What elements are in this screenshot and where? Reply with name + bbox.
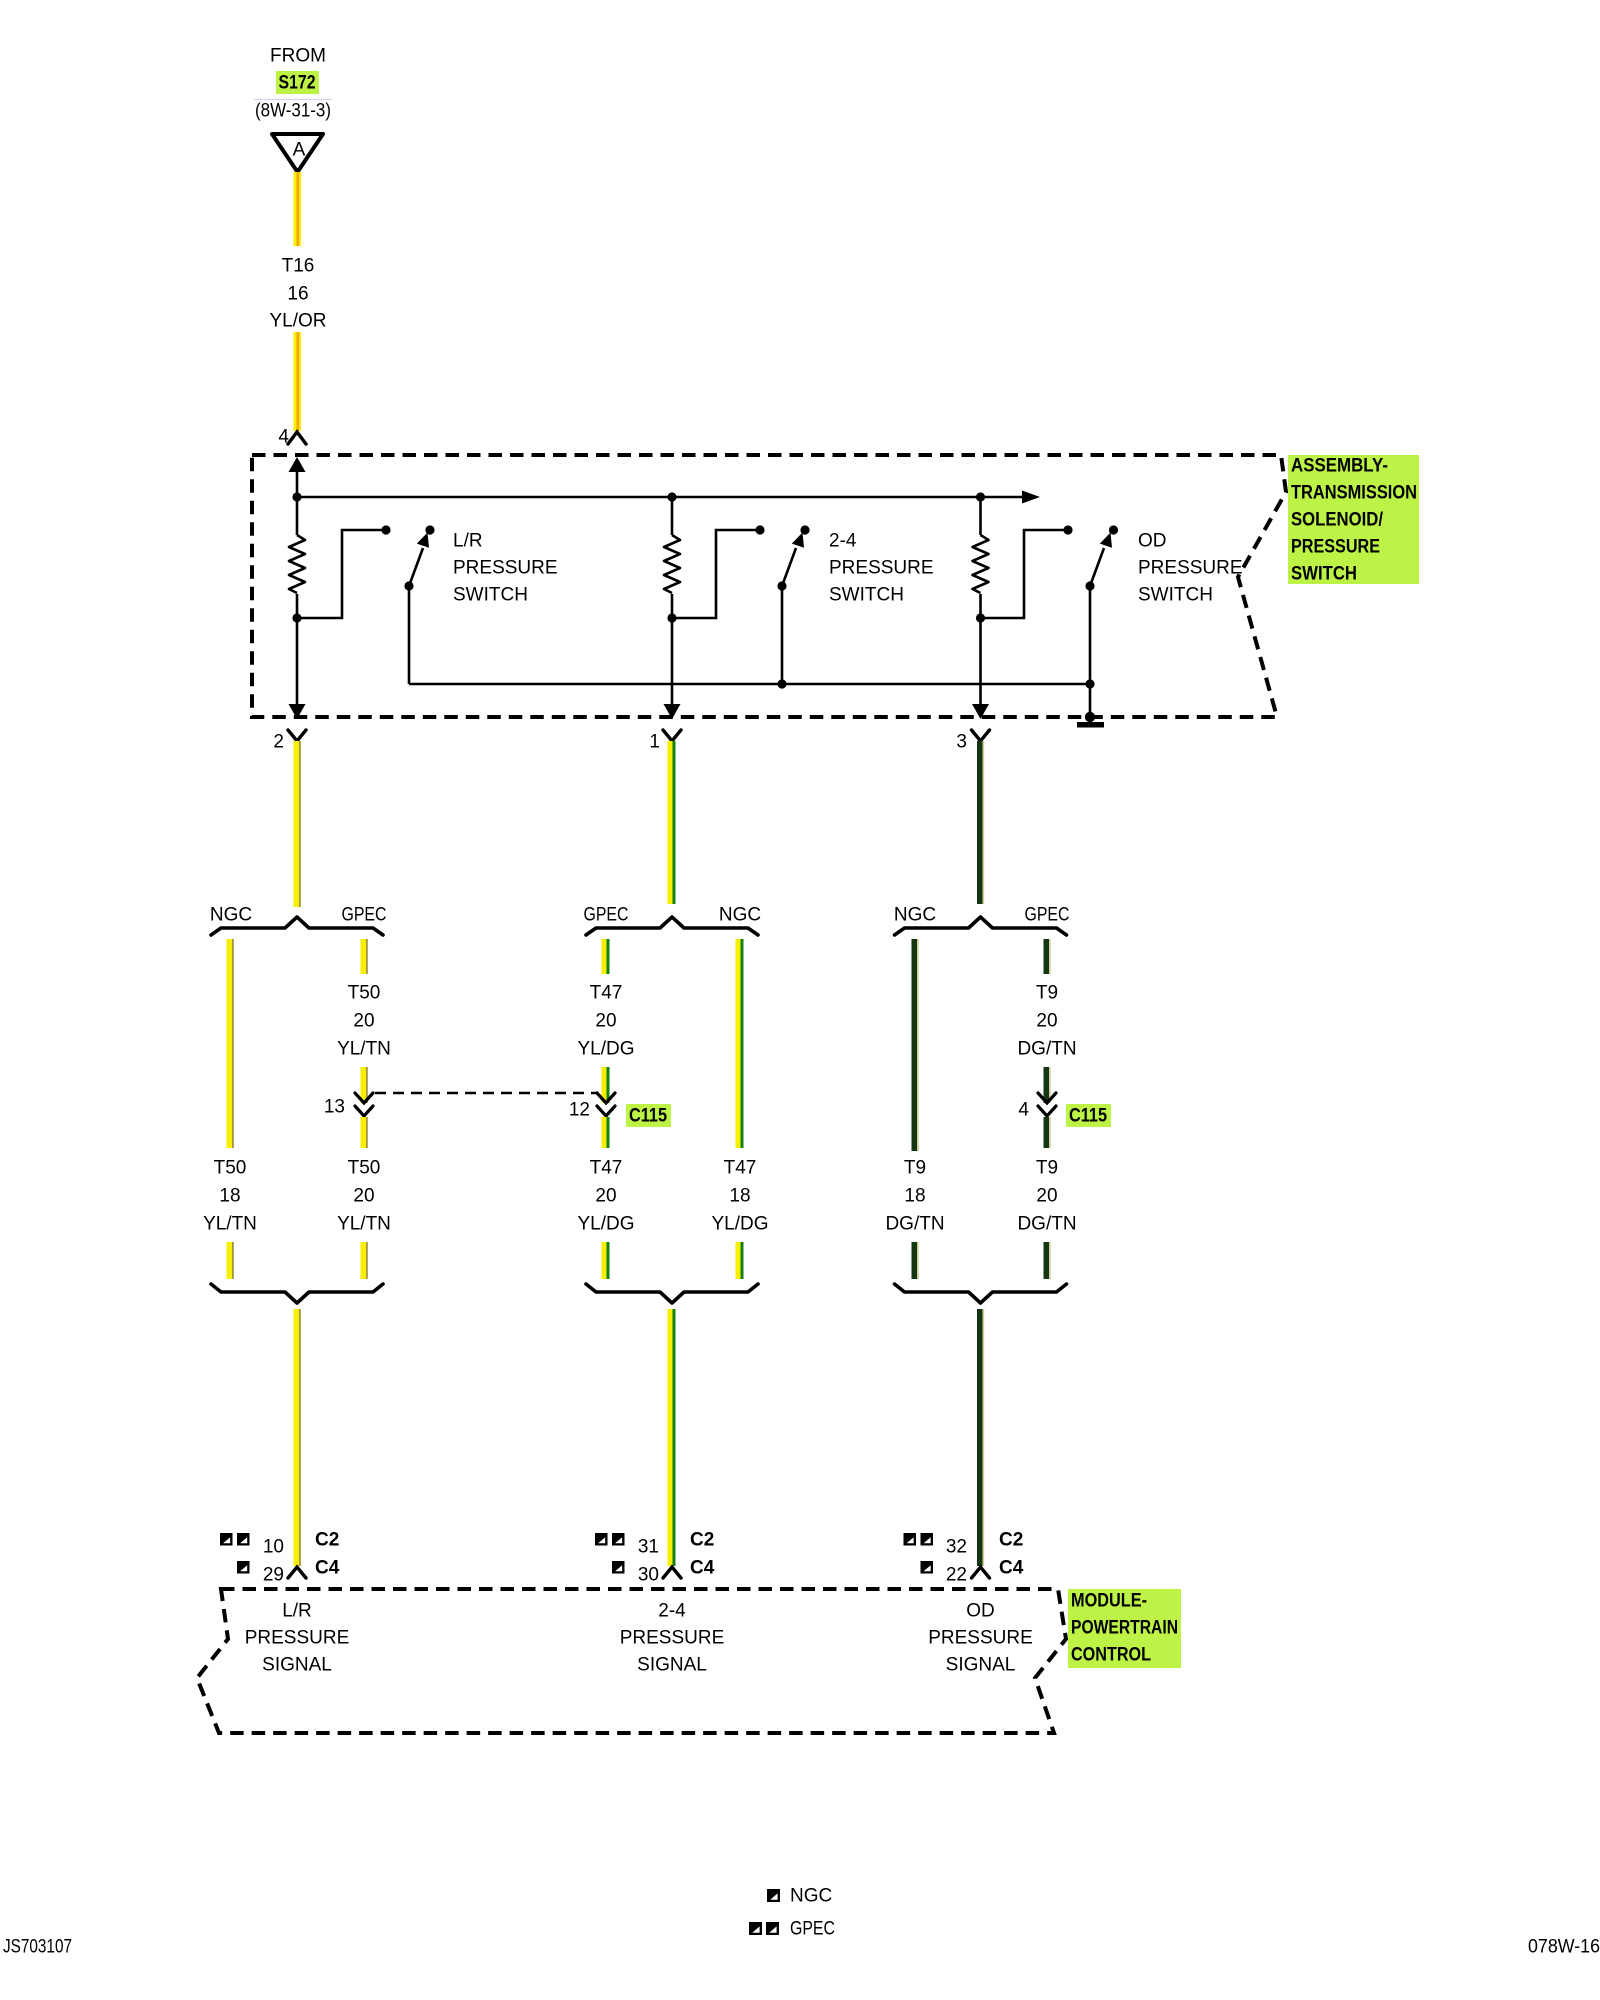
wire col3 merged to PCM (DG/TN) — [977, 1309, 983, 1566]
wire switch common bus (bottom) — [409, 683, 1090, 686]
svg-text:C115: C115 — [1069, 1106, 1107, 1127]
wire col2 vertical — [671, 497, 674, 535]
svg-text:NGC: NGC — [719, 905, 761, 926]
svg-text:3: 3 — [956, 732, 967, 753]
switch OD pressure switch blade — [1109, 525, 1118, 534]
merge brace col3 — [895, 1284, 1067, 1303]
merge brace col2 — [586, 1284, 758, 1303]
svg-text:4: 4 — [1018, 1100, 1029, 1121]
svg-text:20: 20 — [353, 1186, 374, 1207]
wire pin2 to split (YL/TN) — [294, 741, 300, 907]
svg-text:T50: T50 — [348, 1158, 381, 1179]
svg-text:T50: T50 — [214, 1158, 247, 1179]
svg-text:SWITCH: SWITCH — [453, 585, 528, 606]
svg-text:29: 29 — [263, 1565, 284, 1586]
wire col3 NGC branch T9 18 DG/TN — [912, 939, 918, 1151]
pin 29 C4 markers — [237, 1561, 250, 1574]
svg-text:20: 20 — [1036, 1186, 1057, 1207]
svg-text:PRESSURE: PRESSURE — [829, 558, 934, 579]
resistor L/R sense — [289, 535, 305, 593]
svg-text:078W-16: 078W-16 — [1528, 1937, 1600, 1958]
in-line connector C115 pin 13 — [355, 1093, 373, 1103]
svg-text:SIGNAL: SIGNAL — [637, 1655, 707, 1676]
svg-text:YL/DG: YL/DG — [577, 1039, 634, 1060]
pin 1 connector chevron — [663, 730, 681, 741]
wire col3 GPEC lower stub — [1044, 1242, 1050, 1279]
pin chevron col3 into PCM — [972, 1567, 990, 1578]
svg-text:FROM: FROM — [270, 46, 326, 67]
svg-text:GPEC: GPEC — [790, 1919, 835, 1940]
ground (case ground) — [1089, 684, 1092, 717]
pin 30 C4 markers — [612, 1561, 625, 1574]
wire col2 GPEC below C115 — [602, 1117, 607, 1148]
svg-text:GPEC: GPEC — [342, 905, 387, 926]
wire col1 GPEC branch upper stub — [361, 939, 367, 974]
legend NGC icon — [767, 1889, 780, 1902]
internal supply bus wire — [297, 496, 1024, 499]
svg-text:NGC: NGC — [894, 905, 936, 926]
svg-text:YL/OR: YL/OR — [269, 311, 326, 332]
svg-text:12: 12 — [569, 1100, 590, 1121]
svg-text:ASSEMBLY-: ASSEMBLY- — [1291, 456, 1388, 477]
svg-text:SWITCH: SWITCH — [1138, 585, 1213, 606]
exit arrow down pin 1 — [664, 704, 681, 719]
svg-text:20: 20 — [353, 1011, 374, 1032]
svg-text:18: 18 — [219, 1186, 240, 1207]
svg-text:22: 22 — [946, 1565, 967, 1586]
wire col2 NGC branch T47 18 YL/DG — [736, 939, 741, 1148]
label ASSEMBLY-TRANSMISSION SOLENOID/PRESSURE SWITCH (highlighted) — [1288, 455, 1419, 584]
svg-text:GPEC: GPEC — [1025, 905, 1070, 926]
node common bus to ground — [1085, 679, 1094, 688]
entry arrow up at pin 4 — [289, 457, 306, 472]
svg-text:T50: T50 — [348, 983, 381, 1004]
svg-text:SWITCH: SWITCH — [829, 585, 904, 606]
svg-text:L/R: L/R — [453, 531, 483, 552]
svg-text:PRESSURE: PRESSURE — [620, 1628, 725, 1649]
svg-text:YL/DG: YL/DG — [711, 1214, 768, 1235]
wire col1 NGC branch T50 18 YL/TN — [227, 939, 233, 1148]
svg-text:30: 30 — [638, 1565, 659, 1586]
splice S172 highlighted label — [276, 71, 319, 94]
svg-text:NGC: NGC — [210, 905, 252, 926]
svg-text:18: 18 — [904, 1186, 925, 1207]
svg-text:GPEC: GPEC — [584, 905, 629, 926]
wire col2 GPEC branch upper stub — [602, 939, 607, 974]
svg-text:PRESSURE: PRESSURE — [453, 558, 558, 579]
svg-text:OD: OD — [966, 1601, 995, 1622]
svg-text:PRESSURE: PRESSURE — [928, 1628, 1033, 1649]
svg-text:YL/DG: YL/DG — [577, 1214, 634, 1235]
svg-text:SIGNAL: SIGNAL — [262, 1655, 332, 1676]
wire 2-4 switch terminal — [672, 530, 759, 618]
svg-text:SIGNAL: SIGNAL — [946, 1655, 1016, 1676]
wire T16 16 YL/OR lower segment — [294, 332, 302, 431]
svg-text:L/R: L/R — [282, 1601, 312, 1622]
svg-text:10: 10 — [263, 1537, 284, 1558]
switch L/R pressure switch blade — [425, 525, 434, 534]
node below resistor col3 — [976, 613, 985, 622]
svg-text:T9: T9 — [904, 1158, 926, 1179]
svg-text:32: 32 — [946, 1537, 967, 1558]
off-page connector A (triangle) — [272, 134, 323, 172]
wire col1 merged to PCM (YL/TN) — [294, 1309, 300, 1566]
pin 2 connector chevron — [288, 730, 306, 741]
wire col1 GPEC below C115 — [361, 1117, 367, 1148]
svg-text:T9: T9 — [1036, 983, 1058, 1004]
pin chevron col1 into PCM — [288, 1567, 306, 1578]
svg-text:20: 20 — [595, 1186, 616, 1207]
svg-text:2-4: 2-4 — [829, 531, 857, 552]
svg-text:31: 31 — [638, 1537, 659, 1558]
split brace col2 — [586, 917, 758, 935]
bus arrowhead — [1022, 491, 1040, 504]
label MODULE-POWERTRAIN CONTROL (highlighted) — [1068, 1589, 1181, 1668]
svg-text:S172: S172 — [279, 73, 316, 94]
svg-text:PRESSURE: PRESSURE — [1138, 558, 1243, 579]
svg-text:C2: C2 — [690, 1530, 714, 1551]
wire col2 GPEC lower stub — [602, 1242, 607, 1279]
resistor 2-4 sense — [664, 535, 680, 593]
svg-text:NGC: NGC — [790, 1886, 832, 1907]
switch 2-4 pressure switch blade — [800, 525, 809, 534]
svg-text:20: 20 — [1036, 1011, 1057, 1032]
svg-text:C4: C4 — [315, 1558, 340, 1579]
svg-text:16: 16 — [287, 284, 308, 305]
wire col2 GPEC to C115 — [602, 1067, 607, 1103]
svg-text:JS703107: JS703107 — [3, 1937, 72, 1958]
pin chevron col2 into PCM — [663, 1567, 681, 1578]
svg-text:T16: T16 — [282, 256, 315, 277]
wire col2 NGC lower stub — [736, 1242, 741, 1279]
svg-text:C4: C4 — [999, 1558, 1024, 1579]
pin 4 connector chevron — [288, 432, 306, 444]
svg-text:2-4: 2-4 — [658, 1601, 686, 1622]
wire col3 GPEC to C115 — [1044, 1067, 1050, 1103]
svg-text:PRESSURE: PRESSURE — [245, 1628, 350, 1649]
svg-text:T47: T47 — [590, 1158, 623, 1179]
svg-text:OD: OD — [1138, 531, 1167, 552]
pin 32 C2 markers — [904, 1533, 934, 1546]
svg-text:YL/TN: YL/TN — [337, 1039, 391, 1060]
svg-text:YL/TN: YL/TN — [337, 1214, 391, 1235]
assembly transmission solenoid/pressure switch dashed box — [252, 455, 1286, 717]
wire col3 vertical — [979, 497, 982, 535]
wire pin3 to split (DG/TN) — [977, 741, 983, 904]
wire resistor to pin 2 — [296, 594, 299, 705]
node bus junction col1 — [292, 492, 301, 501]
svg-text:POWERTRAIN: POWERTRAIN — [1071, 1618, 1178, 1639]
pin 3 connector chevron — [972, 730, 990, 741]
node below resistor col1 — [292, 613, 301, 622]
node bus junction col3 — [976, 492, 985, 501]
wire L/R switch terminal — [297, 530, 385, 618]
svg-text:C2: C2 — [315, 1530, 339, 1551]
wire OD switch pivot down — [1089, 586, 1092, 684]
svg-text:PRESSURE: PRESSURE — [1291, 537, 1380, 558]
wire col2 merged to PCM (YL/DG) — [668, 1309, 673, 1566]
wire col1 GPEC lower stub — [361, 1242, 367, 1279]
svg-text:SWITCH: SWITCH — [1291, 564, 1357, 585]
exit arrow down pin 3 — [972, 704, 989, 719]
pin 31 C2 markers — [595, 1533, 625, 1546]
legend GPEC icons — [749, 1922, 779, 1935]
svg-text:SOLENOID/: SOLENOID/ — [1291, 510, 1384, 531]
svg-text:T47: T47 — [724, 1158, 757, 1179]
svg-text:MODULE-: MODULE- — [1071, 1591, 1147, 1612]
svg-text:C4: C4 — [690, 1558, 715, 1579]
wire col1 GPEC to C115 — [361, 1067, 367, 1103]
node bus junction col2 — [667, 492, 676, 501]
resistor OD sense — [973, 535, 989, 593]
svg-text:4: 4 — [278, 427, 289, 448]
pin 10 C2 markers (NGC GPEC icons) — [220, 1533, 250, 1546]
svg-text:DG/TN: DG/TN — [1017, 1039, 1076, 1060]
svg-text:(8W-31-3): (8W-31-3) — [255, 101, 331, 122]
svg-text:DG/TN: DG/TN — [1017, 1214, 1076, 1235]
wire OD switch terminal — [981, 530, 1068, 618]
svg-text:13: 13 — [324, 1097, 345, 1118]
wire col3 GPEC below C115 — [1044, 1117, 1050, 1148]
wire L/R switch pivot down — [408, 586, 411, 684]
merge brace col1 — [211, 1284, 383, 1303]
exit arrow down pin 2 — [289, 704, 306, 719]
svg-text:2: 2 — [273, 732, 284, 753]
wire col3 GPEC branch upper stub — [1044, 939, 1050, 974]
module powertrain control dashed box — [197, 1589, 1066, 1733]
svg-text:A: A — [293, 140, 306, 161]
in-line connector C115 pin 12 — [597, 1093, 615, 1103]
split brace col3 — [895, 917, 1067, 935]
pin 22 C4 markers — [921, 1561, 934, 1574]
split brace col1 — [211, 917, 383, 935]
svg-text:TRANSMISSION: TRANSMISSION — [1291, 483, 1417, 504]
svg-text:CONTROL: CONTROL — [1071, 1645, 1151, 1666]
wire pin1 to split (YL/DG) — [668, 741, 673, 904]
wire col3 NGC lower stub — [912, 1242, 918, 1279]
wire 2-4 switch pivot down — [781, 586, 784, 684]
svg-text:T9: T9 — [1036, 1158, 1058, 1179]
svg-text:1: 1 — [649, 732, 660, 753]
svg-text:T47: T47 — [590, 983, 623, 1004]
svg-text:18: 18 — [729, 1186, 750, 1207]
svg-text:C115: C115 — [629, 1106, 667, 1127]
svg-text:20: 20 — [595, 1011, 616, 1032]
node 2-4 pivot on common bus — [777, 679, 786, 688]
svg-text:YL/TN: YL/TN — [203, 1214, 257, 1235]
svg-text:C2: C2 — [999, 1530, 1023, 1551]
reference (8W-31-3) link box top edge — [254, 99, 332, 101]
in-line connector C115 pin 4 — [1038, 1093, 1056, 1103]
svg-text:DG/TN: DG/TN — [885, 1214, 944, 1235]
wire col1 NGC lower stub — [227, 1242, 233, 1279]
wire T16 16 YL/OR upper segment — [294, 172, 302, 246]
node below resistor col2 — [667, 613, 676, 622]
dashed mate line C115 — [375, 1092, 597, 1095]
